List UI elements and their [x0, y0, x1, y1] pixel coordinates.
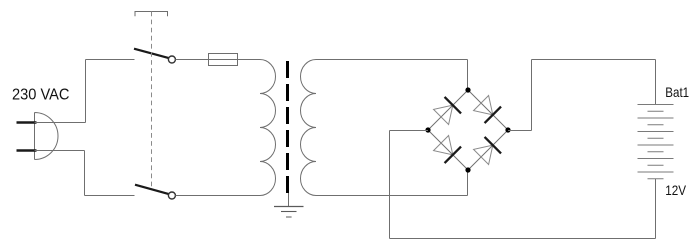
diode D1 — [433, 97, 461, 125]
wire: minus down — [389, 131, 391, 239]
switch S1b contact circle — [168, 192, 175, 199]
switch linkage bracket — [135, 12, 168, 17]
svg-text:12V: 12V — [665, 183, 686, 199]
diode D4 — [473, 137, 501, 165]
wire: switch S1b to transformer primary bottom — [175, 195, 260, 197]
bridge edge bottom-right — [468, 130, 508, 170]
node top — [465, 87, 470, 92]
bridge edge left-bottom — [428, 130, 468, 170]
wire: up to battery minus — [655, 179, 657, 239]
wire: secondary top to bridge — [316, 59, 468, 61]
plug prong top — [17, 121, 37, 123]
wire live: plug to corner — [35, 122, 86, 124]
wire live: to switch S1a — [86, 59, 135, 61]
fuse F1 — [209, 54, 238, 66]
node right — [505, 127, 510, 132]
bridge edge left-top — [428, 90, 468, 130]
wire: bridge right node out — [508, 130, 532, 132]
transformer T1 secondary winding — [301, 60, 317, 196]
switch S1a contact circle — [168, 56, 175, 63]
svg-text:230 VAC: 230 VAC — [12, 87, 70, 104]
diode D3 — [433, 135, 461, 163]
wire: minus bottom run — [390, 238, 656, 240]
switch S1b blade — [135, 185, 169, 194]
wire live: up — [85, 60, 87, 123]
transformer T1 primary winding — [260, 60, 276, 196]
ground stem — [288, 193, 290, 207]
diode D2 — [473, 95, 501, 123]
wire: up to bridge bottom node — [467, 170, 469, 196]
node left — [425, 127, 430, 132]
battery Bat1 plates — [638, 105, 674, 179]
plug prong bottom — [17, 149, 37, 151]
wire: bridge left node out — [390, 130, 429, 132]
switch linkage dashed line — [151, 12, 153, 190]
wire neutral: to switch S1b — [85, 195, 135, 197]
plug P1 (230 VAC mains plug body) — [35, 113, 59, 160]
node bottom — [465, 167, 470, 172]
wire: plus up — [531, 60, 533, 131]
wire: down to battery plus — [655, 60, 657, 105]
wire: down to bridge top node — [467, 60, 469, 91]
wire: plus top run — [532, 59, 656, 61]
bridge edge top-right — [468, 90, 508, 130]
wire neutral: down — [84, 151, 86, 196]
wire: secondary bottom to bridge — [316, 195, 468, 197]
transformer T1 core — [286, 61, 289, 193]
ground — [274, 207, 304, 218]
switch S1a blade — [134, 49, 169, 58]
svg-text:Bat1: Bat1 — [665, 85, 689, 100]
wire: switch S1a to transformer through fuse — [175, 59, 260, 61]
wire neutral: plug to corner — [35, 150, 85, 152]
